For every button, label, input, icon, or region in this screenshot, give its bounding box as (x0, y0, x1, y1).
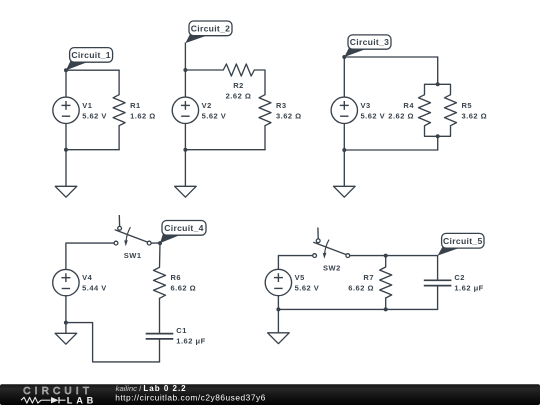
svg-text:3.62 Ω: 3.62 Ω (462, 111, 488, 120)
svg-text:SW1: SW1 (124, 251, 142, 260)
wire R7 top stub (385, 256, 387, 267)
svg-text:1.62 Ω: 1.62 Ω (130, 111, 156, 120)
resistor R7 (380, 267, 392, 298)
ground (175, 186, 197, 197)
wire R7 node to C2 top C5 (386, 255, 438, 257)
node bottom-left C3 (342, 148, 346, 152)
voltage source V3 (331, 97, 357, 123)
wire V5 bottom C5 (277, 296, 279, 310)
svg-text:R7: R7 (363, 273, 374, 282)
node right of switch C4 (158, 241, 162, 245)
svg-text:2.62 Ω: 2.62 Ω (226, 91, 252, 100)
ground (55, 333, 77, 344)
node parallel top C3 (436, 82, 440, 86)
wire to ground C3 (343, 150, 345, 186)
node V4 bottom C4 (64, 321, 68, 325)
ground (268, 333, 290, 344)
footer bar (0, 384, 540, 405)
wire R6 to C1 (159, 298, 161, 333)
resistor R5 (445, 95, 457, 126)
node V5 bottom C5 (276, 307, 280, 311)
wire C2 top stub (437, 256, 439, 280)
wire C1 bottom (159, 340, 161, 362)
wire R7 bottom stub (385, 298, 387, 309)
svg-text:5.62 V: 5.62 V (295, 283, 320, 292)
svg-text:R5: R5 (462, 101, 473, 110)
svg-text:R2: R2 (233, 81, 244, 90)
wire right rail bottom C1 (118, 126, 120, 150)
label Circuit_3 (344, 35, 391, 57)
svg-text:6.62 Ω: 6.62 Ω (348, 283, 374, 292)
svg-text:5.44 V: 5.44 V (82, 284, 107, 293)
node R7 bottom C5 (384, 307, 388, 311)
capacitor C1 (146, 334, 174, 339)
svg-text:LAB: LAB (67, 395, 97, 405)
wire C2 bottom stub (437, 286, 439, 309)
svg-text:6.62 Ω: 6.62 Ω (171, 284, 197, 293)
svg-text:V3: V3 (361, 101, 371, 110)
svg-text:2.62 Ω: 2.62 Ω (388, 111, 414, 120)
svg-text:http://circuitlab.com/c2y86use: http://circuitlab.com/c2y86used37y6 (115, 392, 266, 402)
wire top-left C2 (185, 69, 223, 71)
logo zigzag symbol (21, 397, 41, 403)
svg-text:1.62 μF: 1.62 μF (454, 283, 483, 292)
wire bottom C5 (278, 308, 437, 310)
wire parallel bottom bar C3 (425, 126, 451, 137)
svg-text:V2: V2 (202, 101, 212, 110)
wire top C3 (344, 56, 437, 58)
label Circuit_5 (438, 233, 484, 255)
label Circuit_4 (160, 221, 206, 244)
wire right rail bottom C2 (264, 126, 266, 150)
wire below parallel C3 (437, 136, 439, 150)
svg-text:R3: R3 (276, 101, 287, 110)
wire V5 top to switch C5 (278, 256, 312, 270)
wire left rail bottom C3 (343, 124, 345, 151)
wire to ground C2 (184, 150, 186, 187)
node top-left C1 (64, 68, 68, 72)
svg-text:R4: R4 (403, 101, 414, 110)
svg-text:C1: C1 (176, 326, 187, 335)
resistor R1 (113, 95, 125, 126)
wire bottom C2 (185, 149, 265, 151)
node bottom C2 (183, 148, 187, 152)
label Circuit_2 (185, 21, 232, 43)
wire switch to R7 node C5 (350, 255, 386, 257)
svg-text:R6: R6 (171, 273, 182, 282)
node R7 top C5 (384, 254, 388, 258)
voltage source V4 (53, 269, 79, 295)
svg-text:Circuit_2: Circuit_2 (191, 23, 230, 33)
svg-text:5.62 V: 5.62 V (202, 111, 227, 120)
svg-text:5.62 V: 5.62 V (82, 111, 107, 120)
ground (334, 186, 356, 197)
resistor R6 (154, 267, 166, 298)
wire V4 bottom C4 (65, 296, 67, 323)
resistor R3 (259, 95, 271, 126)
wire stub above node C2 (184, 43, 186, 70)
wire switch to node C4 (151, 242, 160, 244)
wire left rail bottom C2 (184, 124, 186, 150)
node top-left C3 (342, 55, 346, 59)
label Circuit_1 (66, 48, 113, 71)
voltage source V2 (172, 97, 198, 123)
switch SW1 (114, 215, 151, 246)
svg-text:Circuit_5: Circuit_5 (443, 236, 482, 246)
wire node down to R6 (159, 243, 162, 267)
node parallel bottom C3 (436, 134, 440, 138)
wire top-right C2 (254, 70, 265, 95)
wire top C1: node to R1 (66, 69, 119, 71)
voltage source V5 (265, 269, 291, 295)
voltage source V1 (53, 97, 79, 123)
svg-text:C2: C2 (454, 273, 465, 282)
wire parallel top bar C3 (425, 84, 451, 94)
svg-text:5.62 V: 5.62 V (361, 111, 386, 120)
wire V4 top to switch C4 (66, 243, 114, 269)
svg-text:R1: R1 (130, 101, 141, 110)
wire left rail top C1 (65, 70, 67, 97)
logo diode symbol (51, 397, 59, 403)
svg-text:Circuit_1: Circuit_1 (71, 50, 110, 60)
wire left rail bottom C1 (65, 124, 67, 150)
svg-text:Circuit_4: Circuit_4 (164, 223, 203, 233)
wire to ground C5 (277, 309, 279, 332)
wire bottom C3 (344, 149, 437, 151)
svg-text:SW2: SW2 (323, 263, 341, 272)
ground (55, 186, 77, 197)
svg-text:3.62 Ω: 3.62 Ω (276, 111, 302, 120)
wire left rail top C2 (184, 70, 186, 97)
svg-text:V1: V1 (82, 101, 92, 110)
svg-text:Circuit_3: Circuit_3 (350, 37, 389, 47)
resistor R2 (223, 64, 254, 76)
svg-text:V5: V5 (295, 273, 305, 282)
wire right rail to parallel top C3 (437, 57, 439, 84)
capacitor C2 (424, 280, 452, 285)
wire to ground C1 (65, 150, 67, 187)
wire left rail top C3 (343, 57, 345, 97)
wire bottom C1 (66, 149, 119, 151)
wire bottom return path C4 (66, 323, 160, 362)
wire right rail top C1 (118, 70, 120, 95)
node bottom-left C1 (64, 148, 68, 152)
svg-text:1.62 μF: 1.62 μF (176, 337, 205, 346)
node top C2 (183, 68, 187, 72)
svg-text:V4: V4 (82, 273, 93, 282)
wire to ground C4 (65, 323, 67, 334)
switch SW2 (313, 228, 350, 259)
resistor R4 (419, 95, 431, 126)
